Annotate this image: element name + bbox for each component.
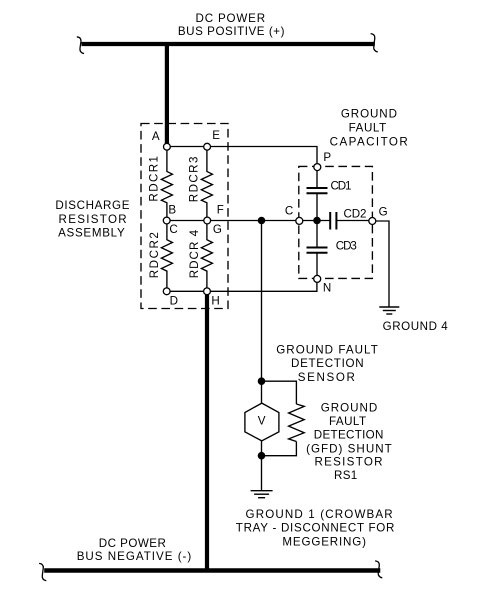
- wire node G to ground 4: [376, 221, 389, 307]
- resistor RS1 branch wire top: [262, 381, 297, 404]
- svg-text:RDCR2: RDCR2: [148, 232, 161, 278]
- resistor RDCR4: [188, 224, 212, 289]
- svg-text:CD3: CD3: [336, 239, 357, 252]
- svg-text:(GFD) SHUNT: (GFD) SHUNT: [306, 442, 392, 455]
- svg-text:G: G: [213, 223, 222, 236]
- wire CD3 to node N: [316, 253, 318, 276]
- svg-text:A: A: [152, 130, 160, 143]
- svg-text:C: C: [169, 223, 177, 236]
- bus break mark bottom-right: [375, 561, 382, 578]
- svg-text:N: N: [323, 282, 331, 295]
- wire sensor tap down to sensor junction: [261, 221, 263, 382]
- svg-text:RESISTOR: RESISTOR: [314, 456, 382, 469]
- ground 1 symbol: [251, 491, 273, 498]
- svg-text:FAULT: FAULT: [349, 121, 387, 134]
- label GROUND FAULT DETECTION (GFD) SHUNT RESISTOR RS1: [306, 401, 392, 482]
- svg-text:CAPACITOR: CAPACITOR: [330, 135, 408, 148]
- svg-text:RDCR1: RDCR1: [147, 156, 160, 202]
- wire junction to CD3: [316, 221, 318, 248]
- bus negative (-) bar: [44, 568, 380, 573]
- svg-text:CD2: CD2: [344, 207, 367, 220]
- svg-text:SENSOR: SENSOR: [298, 371, 355, 384]
- bus break mark top-right: [371, 34, 378, 52]
- wire CD2 to node G: [336, 220, 372, 222]
- node G (capacitor): [369, 206, 388, 225]
- resistor RS1 branch wire bottom: [262, 442, 297, 456]
- ground 4 symbol: [379, 307, 399, 314]
- capacitor CD3: [307, 239, 357, 252]
- ground fault capacitor dashed box: [299, 166, 373, 278]
- svg-text:BUS NEGATIVE (-): BUS NEGATIVE (-): [77, 550, 192, 563]
- resistor RDCR3: [187, 150, 212, 218]
- label DC POWER BUS NEGATIVE (-): [77, 537, 192, 563]
- node B: [163, 204, 176, 224]
- svg-text:BUS POSITIVE (+): BUS POSITIVE (+): [178, 25, 285, 38]
- wire feeder from positive bus to node A: [165, 44, 169, 145]
- wire bottom junction to ground 1: [261, 456, 263, 490]
- junction dot sensor tap: [258, 217, 266, 225]
- junction dot sensor bottom: [258, 452, 266, 460]
- svg-text:GROUND 4: GROUND 4: [383, 320, 449, 333]
- svg-text:DETECTION: DETECTION: [291, 357, 364, 370]
- svg-text:RESISTOR: RESISTOR: [59, 213, 127, 226]
- svg-text:F: F: [217, 204, 224, 217]
- svg-text:GROUND: GROUND: [321, 401, 378, 414]
- wire row B-F to capacitor node C: [167, 220, 299, 222]
- bus break mark top-left: [77, 37, 84, 54]
- svg-text:DISCHARGE: DISCHARGE: [55, 199, 129, 212]
- wire row D-H to capacitor node N: [167, 281, 317, 291]
- resistor RS1: [289, 404, 305, 442]
- svg-text:CD1: CD1: [331, 180, 352, 193]
- svg-text:GROUND 1 (CROWBAR: GROUND 1 (CROWBAR: [246, 508, 393, 521]
- svg-text:G: G: [379, 206, 388, 219]
- node H: [204, 288, 220, 308]
- bus break mark bottom-left: [39, 563, 46, 580]
- svg-text:MEGGERING): MEGGERING): [282, 535, 366, 548]
- wire CD1 to junction: [316, 193, 318, 220]
- svg-text:DC POWER: DC POWER: [99, 537, 166, 550]
- svg-text:E: E: [212, 129, 220, 142]
- capacitor CD2: [330, 207, 366, 229]
- node C (capacitor): [285, 205, 303, 225]
- wire junction to voltmeter: [261, 381, 263, 403]
- label DC POWER BUS POSITIVE (+): [178, 12, 285, 38]
- junction dot capacitor center: [313, 217, 321, 225]
- svg-text:GROUND: GROUND: [341, 108, 397, 121]
- svg-text:ASSEMBLY: ASSEMBLY: [58, 227, 125, 240]
- node E: [204, 129, 221, 150]
- discharge resistor assembly dashed box: [141, 124, 228, 309]
- svg-text:RDCR 4: RDCR 4: [188, 229, 201, 278]
- label GROUND 1 (CROWBAR TRAY - DISCONNECT FOR MEGGERING): [236, 508, 395, 548]
- svg-text:H: H: [211, 294, 219, 307]
- resistor RDCR2: [148, 224, 173, 289]
- junction dot sensor top: [258, 377, 266, 385]
- node F: [204, 204, 224, 224]
- node N: [314, 275, 331, 294]
- svg-text:DC POWER: DC POWER: [196, 12, 266, 25]
- label DISCHARGE RESISTOR ASSEMBLY: [55, 199, 129, 240]
- voltmeter V (ground fault detection sensor): [245, 403, 279, 441]
- node A: [152, 130, 170, 150]
- svg-text:P: P: [323, 151, 331, 164]
- wire row A-E to capacitor node P: [167, 147, 317, 165]
- svg-text:D: D: [170, 294, 178, 307]
- node P: [314, 151, 332, 171]
- label GROUND FAULT CAPACITOR: [330, 108, 408, 149]
- label GROUND FAULT DETECTION SENSOR: [276, 344, 378, 384]
- wire P to CD1: [316, 167, 318, 188]
- svg-text:RDCR3: RDCR3: [187, 157, 200, 203]
- svg-text:RS1: RS1: [334, 469, 357, 482]
- svg-text:B: B: [168, 204, 176, 217]
- bus positive (+) bar: [82, 42, 375, 46]
- wire voltmeter to bottom junction: [261, 441, 263, 456]
- wire feeder from node H to negative bus: [205, 295, 209, 573]
- svg-text:GROUND FAULT: GROUND FAULT: [276, 344, 378, 357]
- node D: [163, 288, 178, 308]
- svg-text:DETECTION: DETECTION: [314, 428, 384, 441]
- svg-text:V: V: [258, 415, 266, 428]
- wire junction to CD2 left plate: [299, 220, 330, 222]
- svg-text:TRAY - DISCONNECT FOR: TRAY - DISCONNECT FOR: [236, 522, 395, 535]
- svg-text:C: C: [285, 205, 293, 218]
- svg-text:FAULT: FAULT: [329, 415, 366, 428]
- resistor RDCR1: [147, 150, 172, 218]
- capacitor CD1: [307, 180, 352, 194]
